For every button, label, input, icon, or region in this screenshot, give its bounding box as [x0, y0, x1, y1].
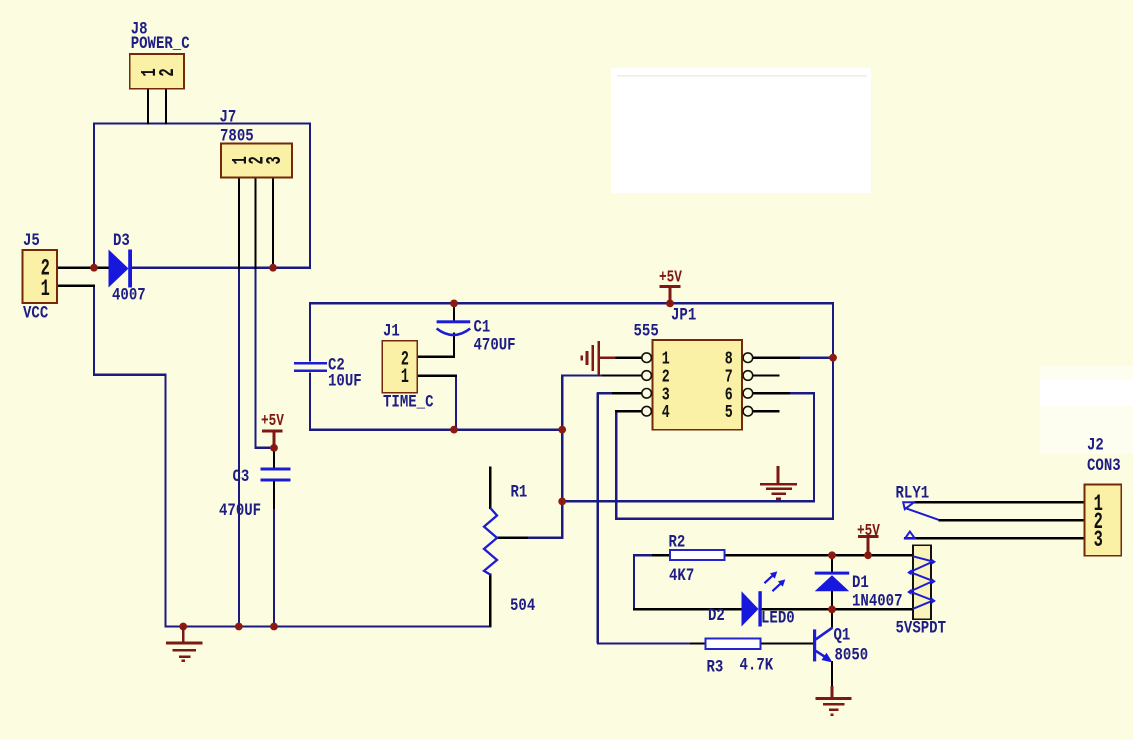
node D1 cathode on +5V line	[828, 551, 836, 559]
wire ground rail	[165, 625, 492, 627]
svg-text:POWER_C: POWER_C	[131, 33, 190, 53]
node J5.2 / D3 anode junction	[90, 264, 98, 272]
wire J1 pin1 stub	[417, 375, 457, 377]
svg-text:J7: J7	[220, 107, 237, 127]
wire C3 top lead	[273, 447, 275, 469]
wire 555 pin8 navy part	[799, 357, 833, 359]
wire J5 pin1 vertical	[93, 285, 95, 376]
ground at Q1 emitter	[816, 686, 852, 715]
svg-text:D2: D2	[708, 606, 725, 626]
555 pin 8 circle	[743, 353, 753, 363]
svg-text:504: 504	[510, 596, 536, 616]
node +5V at C3	[270, 444, 278, 452]
node D1 anode / Q1 collector	[828, 606, 836, 614]
svg-text:1N4007: 1N4007	[852, 591, 903, 611]
svg-text:2: 2	[156, 68, 180, 76]
wire C3 lower lead to rail	[273, 508, 275, 626]
wire C1 top lead	[453, 302, 455, 321]
blank overlay top	[611, 68, 871, 193]
svg-text:470UF: 470UF	[474, 335, 516, 355]
wire R1 top lead	[489, 467, 491, 509]
connector J2 body	[1085, 484, 1122, 555]
node C1/J1 bottom loop	[450, 426, 458, 434]
wire 7805 pin3 stub	[272, 178, 274, 267]
node pin2 net at loop bottom	[558, 426, 566, 434]
svg-text:4007: 4007	[112, 285, 146, 305]
diode D3	[109, 250, 133, 288]
svg-text:4: 4	[662, 402, 670, 423]
svg-text:8050: 8050	[835, 645, 869, 665]
wire 555 pin6 stub	[753, 392, 790, 394]
svg-text:R3: R3	[707, 657, 724, 677]
wire 555 pin1 stub	[615, 357, 642, 359]
wire Q1 collector lead	[831, 608, 833, 627]
wire 555 pin3 stub	[612, 392, 642, 394]
wire 555 pin7 stub	[753, 374, 780, 376]
wire D1 top lead	[831, 554, 833, 573]
svg-text:1: 1	[41, 276, 50, 302]
capacitor C2	[294, 362, 327, 372]
svg-text:D1: D1	[852, 573, 869, 593]
wire J5 pin2 to D3 anode	[57, 267, 113, 269]
wire R2 right to relay coil	[724, 554, 915, 556]
wire pin2 net vertical	[561, 375, 563, 540]
wire C2 branch vertical upper	[309, 302, 311, 361]
wire R3 to Q1 base	[759, 642, 814, 644]
svg-text:10UF: 10UF	[328, 371, 362, 391]
svg-text:CON3: CON3	[1087, 456, 1121, 476]
node 7805 pin1 on rail	[235, 623, 243, 631]
node 555 pin8 on +5V vertical	[829, 354, 837, 362]
wire relay NC to J2 pin2	[939, 519, 1086, 521]
wire R1 wiper black part	[497, 537, 529, 539]
svg-text:+5V: +5V	[659, 267, 682, 287]
svg-text:Q1: Q1	[834, 625, 851, 645]
wire 7805 pin2 down and right to +5V node	[255, 268, 275, 448]
wire timing loop bottom	[309, 428, 562, 430]
wire left vertical of J8 loop	[93, 123, 95, 268]
svg-text:C3: C3	[233, 467, 250, 487]
connector J8 body	[130, 54, 184, 89]
node C3 bottom on rail	[270, 623, 278, 631]
relay RLY1 coil body	[913, 545, 931, 619]
wire 555 pin6 navy part	[789, 392, 815, 394]
relay RLY1 coil winding	[907, 556, 936, 609]
potentiometer R1	[484, 508, 497, 575]
wire J1 pin1 vertical	[455, 376, 457, 430]
svg-text:TIME_C: TIME_C	[383, 392, 434, 412]
wire J1 pin2 stub	[417, 356, 455, 358]
power +5V symbol at JP1	[660, 287, 681, 305]
555 pin 1 circle	[642, 353, 652, 363]
wire C1 bottom lead	[453, 333, 455, 358]
wire R1 bottom lead	[489, 574, 491, 627]
wire pin6 net vertical	[813, 392, 815, 502]
wire vertical down to ground rail	[164, 374, 166, 628]
svg-text:J5: J5	[23, 231, 40, 251]
wire R1 wiper navy part	[527, 537, 562, 539]
transistor Q1	[813, 628, 833, 663]
555 pin 3 circle	[642, 389, 652, 399]
resistor R3	[705, 639, 760, 649]
ground below 555	[760, 466, 797, 499]
wire +5V right vertical	[832, 302, 834, 519]
svg-text:JP1: JP1	[671, 305, 696, 325]
wire 555 pin3 horizontal	[597, 392, 613, 394]
wire relay common to J2 pin1	[914, 501, 1086, 503]
node 7805 pin3 on D3 net	[269, 264, 277, 272]
blank overlay right	[1040, 366, 1133, 454]
svg-text:3: 3	[263, 156, 287, 164]
wire 555 pin4 stub	[615, 410, 642, 412]
connector J5 body	[23, 250, 58, 303]
node ground symbol on rail	[179, 623, 187, 631]
IC 555 JP1 body	[653, 340, 743, 430]
wire top loop horizontal from J8 net	[93, 122, 311, 124]
wire R3 left stub	[690, 642, 706, 644]
wire 7805 pin1 stub	[238, 178, 240, 270]
wire 555 pin5 stub	[753, 410, 780, 412]
wire pin4 net bottom horizontal	[615, 517, 834, 519]
svg-text:5VSPDT: 5VSPDT	[896, 618, 947, 638]
svg-text:470UF: 470UF	[219, 501, 261, 521]
wire J5 pin1 stub	[57, 285, 95, 287]
wire pin3 net vertical	[597, 392, 599, 643]
wire Q1 emitter lead	[831, 661, 833, 687]
555 pin 2 circle	[642, 371, 652, 381]
ground at bottom rail	[166, 627, 203, 661]
resistor R2	[670, 550, 725, 560]
svg-text:4K7: 4K7	[669, 566, 694, 586]
svg-text:VCC: VCC	[23, 303, 49, 323]
wire 555 pin8 stub	[753, 357, 800, 359]
wire 7805 pin1 down to rail	[238, 268, 240, 627]
wire D3 cathode to right corner	[130, 267, 311, 269]
wire D2 cathode line to relay coil	[761, 608, 914, 610]
svg-text:LED0: LED0	[761, 608, 795, 628]
power +5V symbol at relay	[858, 537, 879, 557]
svg-text:R1: R1	[511, 482, 528, 502]
svg-text:+5V: +5V	[261, 410, 284, 430]
svg-text:555: 555	[634, 321, 659, 341]
svg-text:J2: J2	[1087, 435, 1104, 455]
svg-text:5: 5	[725, 402, 733, 423]
connector J1 body	[382, 341, 417, 393]
555 pin 5 circle	[743, 406, 753, 416]
svg-text:1: 1	[401, 367, 409, 389]
wire right vertical of J8 loop	[309, 123, 311, 269]
svg-text:4.7K: 4.7K	[740, 655, 774, 675]
wire 555 pin2 horizontal	[561, 374, 603, 376]
wire main +5V top horizontal	[309, 302, 834, 304]
svg-text:3: 3	[1094, 527, 1103, 553]
LED D2	[742, 571, 786, 626]
relay RLY1 switch contacts	[903, 502, 938, 538]
wire jog to ground rail	[93, 373, 167, 375]
555 pin 4 circle	[642, 406, 652, 416]
diode D1	[815, 572, 850, 592]
555 pin 7 circle	[743, 371, 753, 381]
wire R2 left navy part	[633, 554, 653, 556]
node +5V symbol at relay	[864, 551, 872, 559]
node pin2/pin6 junction	[558, 498, 566, 506]
node C1 top on +5V rail	[450, 300, 458, 308]
wire 7805 pin2 stub	[254, 178, 256, 270]
wire R2 left vertical	[633, 554, 635, 610]
wire D2 anode line	[633, 608, 743, 610]
wire 555 pin2 stub	[602, 374, 642, 376]
wire pin6 to pin2 horizontal	[562, 500, 815, 502]
555 pin 6 circle	[743, 389, 753, 399]
wire J8 pin2 stub	[165, 89, 167, 125]
svg-text:7805: 7805	[220, 126, 254, 146]
wire C3 mid lead	[273, 481, 275, 510]
wire J8 pin1 stub	[147, 89, 149, 125]
svg-text:RLY1: RLY1	[896, 483, 930, 503]
wire C2 branch vertical lower	[309, 372, 311, 430]
svg-text:+5V: +5V	[857, 520, 880, 540]
wire pin3 net horizontal to R3	[597, 642, 691, 644]
svg-text:R2: R2	[669, 532, 686, 552]
wire pin4 net vertical	[615, 410, 617, 520]
wire relay NO to J2 pin3	[904, 537, 1086, 539]
capacitor C1	[437, 320, 471, 335]
svg-text:J1: J1	[383, 321, 400, 341]
capacitor C3	[260, 468, 290, 482]
ground at 555 pin1	[582, 341, 616, 375]
wire into R2 left	[652, 554, 671, 556]
power +5V symbol at C3	[262, 431, 283, 449]
wire D1 bottom lead	[831, 590, 833, 610]
regulator J7 7805 body	[221, 144, 292, 178]
node +5V symbol JP1	[666, 300, 674, 308]
svg-text:D3: D3	[113, 231, 130, 251]
